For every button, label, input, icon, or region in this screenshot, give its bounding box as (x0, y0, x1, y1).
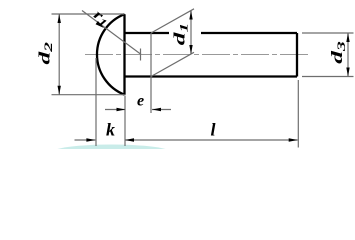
d3 dimension line (347, 33, 349, 77)
shank end edge (296, 33, 298, 77)
d1 arrow up (189, 11, 192, 20)
shank top edge (125, 32, 298, 34)
e dimension left tail (105, 109, 126, 111)
svg-text:k: k (106, 120, 115, 140)
k arrow right (86, 138, 95, 141)
l right extension line (297, 80, 299, 148)
shank bottom edge (125, 75, 298, 77)
arc center tick (140, 49, 142, 61)
centerline (85, 54, 308, 56)
d3 arrow up (346, 33, 349, 42)
d3 extension line top (302, 32, 354, 34)
svg-text:e: e (137, 93, 144, 110)
l dimension line (125, 139, 298, 141)
d2 extension line bottom (52, 94, 125, 96)
e left extension line (head underside) (124, 96, 126, 147)
l arrow left (125, 138, 134, 141)
d3 extension line bottom (302, 76, 354, 78)
d3 arrow down (346, 68, 349, 77)
highlight strip (53, 145, 171, 160)
k dimension left tail (75, 139, 96, 141)
e arrow left (152, 108, 161, 111)
svg-text:l: l (210, 120, 215, 140)
rivet head dome arc (97, 14, 125, 95)
d2 extension line top (52, 13, 125, 15)
k left extension line (dome apex) (95, 58, 97, 146)
d1 oblique extension bottom (151, 52, 194, 76)
d1 arrow down (189, 45, 192, 54)
d1 section line (150, 33, 152, 113)
d2 dimension line (58, 14, 60, 95)
r1 radius line (82, 11, 141, 55)
e dimension right tail (152, 109, 171, 111)
d1 oblique extension top (151, 9, 194, 33)
r1 arrow (96, 21, 104, 28)
rivet head flat face (123, 14, 125, 95)
d2 arrow down (58, 86, 61, 95)
d1 dimension line (190, 11, 192, 55)
l arrow right (289, 138, 298, 141)
e arrow right (117, 108, 126, 111)
d2 arrow up (58, 14, 61, 23)
